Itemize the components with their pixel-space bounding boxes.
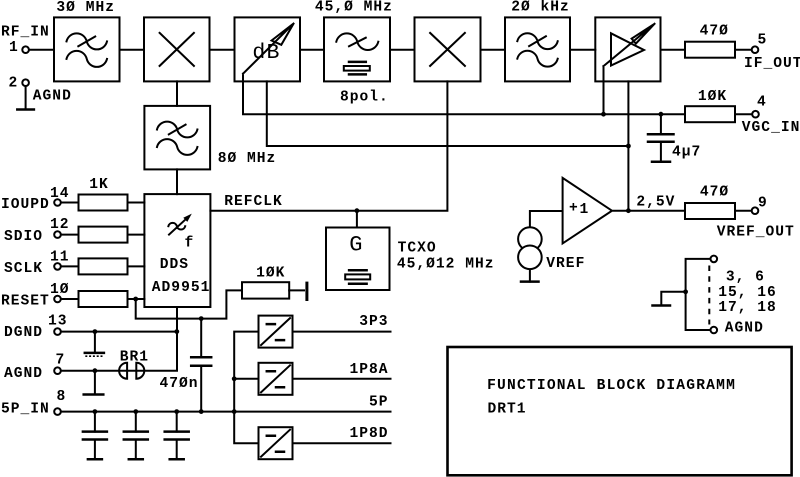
svg-text:15, 16: 15, 16 xyxy=(718,285,777,301)
svg-text:IOUPD: IOUPD xyxy=(1,197,50,213)
svg-text:1K: 1K xyxy=(89,177,109,193)
svg-text:G: G xyxy=(349,233,363,258)
svg-text:VGC_IN: VGC_IN xyxy=(742,120,800,136)
svg-text:47Ø: 47Ø xyxy=(700,24,729,40)
svg-text:f: f xyxy=(185,236,195,252)
svg-text:1P8D: 1P8D xyxy=(349,426,388,442)
svg-text:AD9951: AD9951 xyxy=(152,280,211,296)
svg-text:SDIO: SDIO xyxy=(4,229,43,245)
svg-text:47Øn: 47Øn xyxy=(160,376,199,392)
svg-text:5P_IN: 5P_IN xyxy=(1,401,50,417)
svg-text:2,5V: 2,5V xyxy=(636,195,675,211)
svg-text:8pol.: 8pol. xyxy=(340,90,389,106)
svg-text:3P3: 3P3 xyxy=(359,314,388,330)
svg-text:1: 1 xyxy=(9,40,19,56)
svg-text:45,Ø MHz: 45,Ø MHz xyxy=(315,0,393,16)
svg-text:dB: dB xyxy=(252,41,280,65)
svg-text:4: 4 xyxy=(757,95,767,111)
svg-text:45,Ø12 MHz: 45,Ø12 MHz xyxy=(397,257,495,273)
svg-text:5P: 5P xyxy=(369,395,389,411)
svg-text:+: + xyxy=(569,201,579,217)
svg-text:1ØK: 1ØK xyxy=(256,265,285,281)
svg-text:AGND: AGND xyxy=(33,88,72,104)
svg-text:12: 12 xyxy=(50,217,70,233)
svg-text:DGND: DGND xyxy=(4,325,43,341)
svg-text:SCLK: SCLK xyxy=(4,261,43,277)
svg-text:5: 5 xyxy=(758,32,768,48)
svg-text:17, 18: 17, 18 xyxy=(718,300,777,316)
svg-text:13: 13 xyxy=(48,314,68,330)
svg-text:AGND: AGND xyxy=(725,320,764,336)
svg-text:7: 7 xyxy=(56,353,66,369)
svg-text:47Ø: 47Ø xyxy=(700,185,729,201)
svg-text:8Ø MHz: 8Ø MHz xyxy=(218,151,277,167)
svg-text:2Ø kHz: 2Ø kHz xyxy=(511,0,570,16)
svg-text:4µ7: 4µ7 xyxy=(672,144,701,160)
svg-text:3, 6: 3, 6 xyxy=(726,270,765,286)
svg-text:RF_IN: RF_IN xyxy=(1,24,50,40)
svg-text:1Ø: 1Ø xyxy=(50,282,70,298)
svg-text:VREF: VREF xyxy=(546,256,585,272)
svg-text:AGND: AGND xyxy=(4,366,43,382)
svg-text:2: 2 xyxy=(9,76,19,92)
svg-text:VREF_OUT: VREF_OUT xyxy=(717,225,795,241)
svg-text:8: 8 xyxy=(57,389,67,405)
svg-text:REFCLK: REFCLK xyxy=(224,194,283,210)
svg-text:9: 9 xyxy=(758,196,768,212)
svg-text:1P8A: 1P8A xyxy=(349,362,388,378)
svg-text:11: 11 xyxy=(50,249,70,265)
svg-text:TCXO: TCXO xyxy=(398,241,437,257)
svg-text:RESET: RESET xyxy=(1,294,50,310)
svg-text:BR1: BR1 xyxy=(120,350,149,366)
svg-text:IF_OUT: IF_OUT xyxy=(744,56,800,72)
svg-text:3Ø MHz: 3Ø MHz xyxy=(56,0,115,16)
svg-text:DRT1: DRT1 xyxy=(488,402,527,418)
svg-text:14: 14 xyxy=(50,186,70,202)
svg-text:1ØK: 1ØK xyxy=(698,89,727,105)
svg-text:1: 1 xyxy=(580,202,590,218)
svg-text:DDS: DDS xyxy=(160,257,189,273)
svg-text:FUNCTIONAL BLOCK DIAGRAMM: FUNCTIONAL BLOCK DIAGRAMM xyxy=(487,378,736,394)
